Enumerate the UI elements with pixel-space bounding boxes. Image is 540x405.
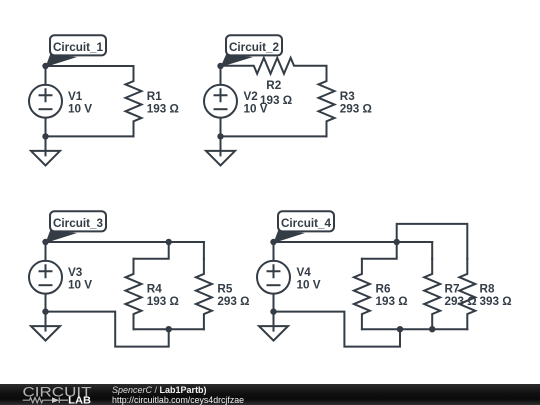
wire top rail circuit 4 (274, 241, 433, 243)
svg-text:V2: V2 (244, 90, 259, 103)
svg-text:R8: R8 (480, 282, 495, 295)
svg-text:R4: R4 (147, 282, 162, 295)
resistor R3 (319, 66, 335, 136)
svg-text:V3: V3 (68, 266, 83, 279)
node dot bottom V4 (270, 308, 276, 314)
svg-text:10 V: 10 V (68, 278, 92, 291)
svg-text:LAB: LAB (68, 396, 91, 405)
wire R7 top lead (431, 242, 433, 259)
node dot top circuit 2 (217, 63, 223, 69)
wire R5 top lead (203, 242, 205, 259)
wire upper loop to R8 (397, 224, 468, 259)
svg-text:Circuit_3: Circuit_3 (53, 217, 104, 230)
resistor R2 in top rail (221, 58, 327, 74)
wire bottom rail circuit 4 (362, 328, 467, 330)
wire bottom rail circuit 1 (46, 135, 134, 137)
svg-text:193 Ω: 193 Ω (260, 94, 292, 107)
svg-text:V4: V4 (297, 266, 312, 279)
resistor R4 (126, 259, 142, 329)
node dot bottom rail loop (397, 326, 403, 332)
node dot junction circuit 4 (394, 239, 400, 245)
node dot top circuit 1 (42, 63, 48, 69)
footer bar (0, 384, 540, 405)
svg-text:Circuit_1: Circuit_1 (53, 41, 104, 54)
svg-text:393 Ω: 393 Ω (480, 295, 512, 308)
svg-text:10 V: 10 V (68, 102, 92, 115)
label flag Circuit_2 (221, 54, 254, 67)
ground circuit 2 (220, 136, 222, 155)
voltage source V2 (220, 66, 222, 136)
label flag Circuit_3 (46, 230, 78, 243)
wire top rail circuit 3 (46, 241, 204, 243)
ground circuit 4 (273, 312, 275, 331)
svg-text:R5: R5 (217, 282, 232, 295)
svg-text:R6: R6 (376, 282, 391, 295)
svg-text:10 V: 10 V (297, 278, 321, 291)
wire bottom rail circuit 3 (134, 328, 204, 330)
resistor R6 (354, 259, 370, 329)
footer url text (112, 395, 244, 405)
wire top rail circuit 1 (46, 65, 134, 67)
svg-text:293 Ω: 293 Ω (217, 295, 249, 308)
footer byline text (112, 385, 207, 395)
logo resistor-diode symbol (23, 398, 52, 403)
voltage source V3 (45, 242, 47, 312)
svg-text:193 Ω: 193 Ω (147, 102, 179, 115)
node dot bottom circuit 2 (217, 133, 223, 139)
node dot top circuit 3 (42, 239, 48, 245)
svg-text:193 Ω: 193 Ω (147, 295, 179, 308)
label flag Circuit_4 (274, 230, 306, 243)
wire jog to R4 (134, 242, 169, 259)
resistor R5 (196, 259, 212, 329)
ground circuit 1 (45, 136, 47, 155)
voltage source V1 (45, 66, 47, 136)
svg-text:193 Ω: 193 Ω (376, 295, 408, 308)
wire return loop circuit 4 (274, 312, 401, 347)
wire bottom rail circuit 2 (221, 135, 327, 137)
resistor R7 (424, 259, 440, 329)
svg-text:Circuit_4: Circuit_4 (281, 217, 332, 230)
svg-text:293 Ω: 293 Ω (340, 102, 372, 115)
svg-text:293 Ω: 293 Ω (445, 295, 477, 308)
voltage source V4 (273, 242, 275, 312)
svg-text:R2: R2 (266, 79, 281, 92)
node dot bottom V3 (42, 308, 48, 314)
label flag Circuit_1 (46, 54, 78, 67)
svg-text:R3: R3 (340, 90, 355, 103)
wire jog to R6 (362, 242, 397, 259)
node dot mid-top circuit 3 (166, 239, 172, 245)
node dot bottom rail R7 (429, 326, 435, 332)
footer logo CIRCUIT (0, 382, 100, 405)
svg-text:V1: V1 (68, 90, 83, 103)
ground circuit 3 (45, 312, 47, 331)
node dot bottom rail circuit 3 (166, 326, 172, 332)
wire return loop circuit 3 (46, 312, 169, 347)
resistor R8 (459, 259, 475, 329)
node dot bottom circuit 1 (42, 133, 48, 139)
resistor R1 (126, 66, 142, 136)
svg-text:R1: R1 (147, 90, 162, 103)
svg-text:Circuit_2: Circuit_2 (229, 41, 280, 54)
node dot top circuit 4 (270, 239, 276, 245)
svg-text:R7: R7 (445, 282, 460, 295)
